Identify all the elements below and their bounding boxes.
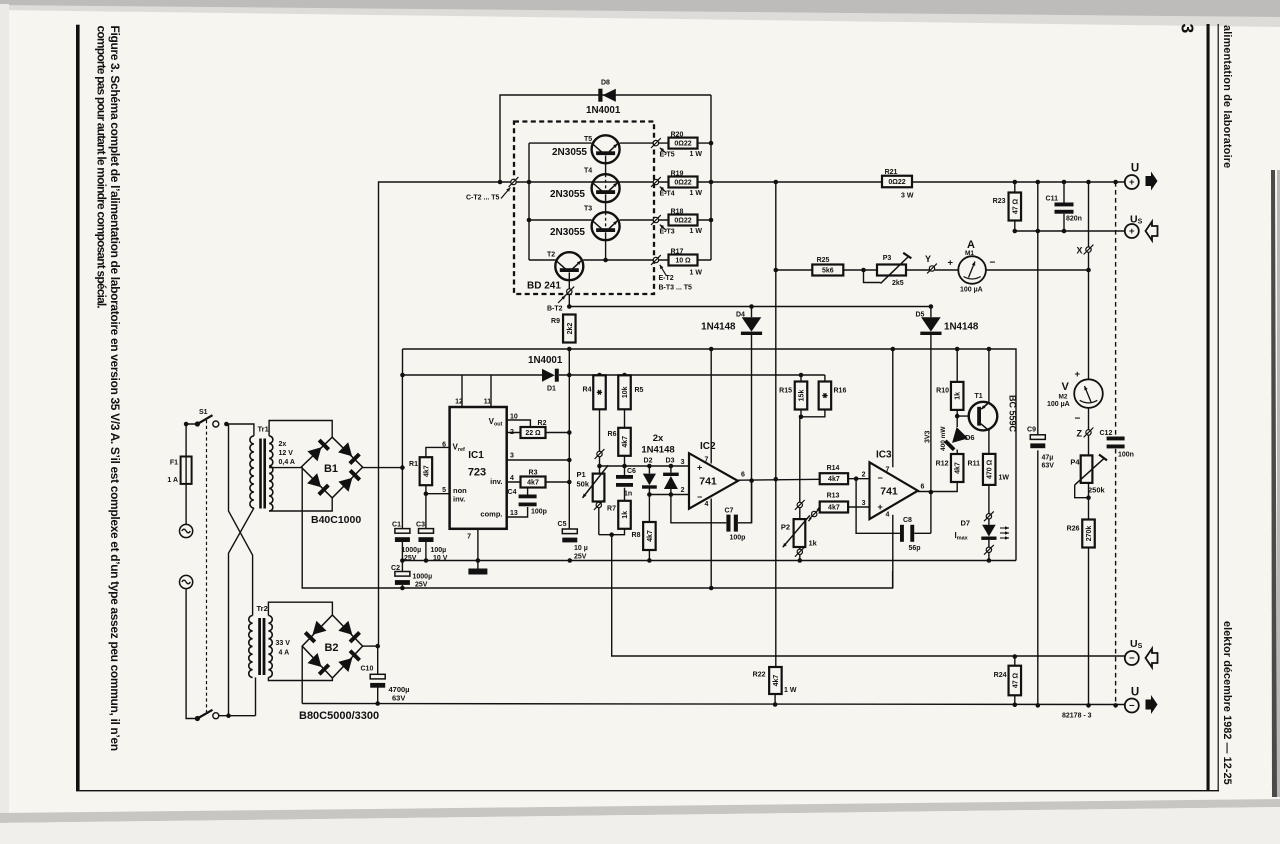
diode D5 xyxy=(921,317,941,331)
cut mark P1 bottom xyxy=(596,502,601,507)
wire C1 column xyxy=(401,375,403,529)
svg-text:X: X xyxy=(1077,246,1083,256)
wire P2 column xyxy=(799,417,801,503)
wire P1 bottom to sense xyxy=(599,502,1125,657)
resistor R24 xyxy=(1009,666,1022,696)
svg-text:63V: 63V xyxy=(392,694,405,703)
cut mark E-T5 xyxy=(653,140,658,145)
svg-text:M1: M1 xyxy=(965,250,974,257)
svg-text:B40C1000: B40C1000 xyxy=(311,514,361,526)
wire IC1 pin4 R3 row xyxy=(507,481,570,483)
svg-text:+: + xyxy=(878,502,883,512)
svg-text:100p: 100p xyxy=(531,509,547,516)
wire meter row 270 xyxy=(776,269,877,271)
svg-text:1k: 1k xyxy=(955,392,962,400)
resistor R14 xyxy=(820,473,848,484)
svg-text:10: 10 xyxy=(510,414,518,421)
resistor R5 xyxy=(618,375,631,409)
wire C9 column xyxy=(1037,182,1039,435)
svg-text:R5: R5 xyxy=(635,387,644,394)
svg-text:S1: S1 xyxy=(199,409,208,416)
svg-text:11: 11 xyxy=(484,399,492,406)
svg-text:comp.: comp. xyxy=(480,510,502,519)
svg-text:4k7: 4k7 xyxy=(622,436,629,448)
wire IC1 pin13 comp xyxy=(507,507,528,517)
svg-text:R9: R9 xyxy=(551,318,560,325)
wire IC2 feedback loop xyxy=(671,481,752,523)
switch S1 pole2 xyxy=(195,716,200,721)
svg-text:3 W: 3 W xyxy=(901,193,914,200)
wire Tr1 bottom to S1 pole2 cross xyxy=(229,508,254,716)
resistor R19 xyxy=(669,177,698,188)
wire R26 to U- rail xyxy=(1088,548,1090,705)
cut mark X xyxy=(1086,247,1091,252)
wire divider row 466 xyxy=(599,465,689,467)
svg-text:R15: R15 xyxy=(779,388,792,395)
svg-text:3: 3 xyxy=(510,453,514,460)
wire sense row 231 xyxy=(1015,230,1125,232)
svg-text:2: 2 xyxy=(862,472,866,479)
svg-text:5k6: 5k6 xyxy=(822,268,834,275)
svg-text:2k2: 2k2 xyxy=(567,323,574,335)
capacitor C7 xyxy=(726,515,730,532)
svg-text:2k5: 2k5 xyxy=(892,280,904,287)
svg-text:V: V xyxy=(1062,381,1070,393)
wire B2 plus to C10 xyxy=(363,645,378,647)
wire R5-R6 link xyxy=(624,410,626,428)
svg-text:R13: R13 xyxy=(827,493,840,500)
svg-text:U: U xyxy=(1131,687,1139,699)
diode D1 xyxy=(542,369,555,382)
svg-text:D3: D3 xyxy=(666,458,675,465)
svg-text:0Ω22: 0Ω22 xyxy=(888,179,905,186)
svg-text:D7: D7 xyxy=(961,519,971,528)
svg-text:723: 723 xyxy=(468,467,486,479)
svg-text:elektor décembre 1982 — 12-25: elektor décembre 1982 — 12-25 xyxy=(1221,621,1233,785)
svg-text:1 W: 1 W xyxy=(690,190,703,197)
capacitor C1 xyxy=(395,529,410,534)
resistor R25 xyxy=(812,265,843,276)
wire IC1 pin6 Vref xyxy=(426,447,507,457)
svg-text:Z: Z xyxy=(1077,429,1083,439)
right margin thin rule xyxy=(1218,24,1219,790)
svg-text:+: + xyxy=(1075,369,1081,380)
svg-text:1n: 1n xyxy=(624,491,632,498)
transformer Tr1 xyxy=(250,436,254,508)
svg-text:0Ω22: 0Ω22 xyxy=(674,218,691,225)
svg-text:C9: C9 xyxy=(1027,427,1036,434)
svg-text:47µ: 47µ xyxy=(1042,455,1054,462)
output Us plus xyxy=(1125,224,1139,238)
cut mark above D7 xyxy=(986,514,991,519)
svg-text:+: + xyxy=(948,258,954,269)
svg-text:100n: 100n xyxy=(1118,452,1134,459)
svg-text:R6: R6 xyxy=(608,431,617,438)
wire D4 column xyxy=(751,307,753,318)
wire D2 stubs xyxy=(648,466,650,474)
wire P4 bottom node xyxy=(1088,483,1090,519)
diode D2 xyxy=(643,474,656,486)
wire Tr2 bottom stub xyxy=(255,677,257,715)
svg-text:D5: D5 xyxy=(916,312,925,319)
resistor R20 xyxy=(669,138,698,149)
cut mark B-T2 xyxy=(567,289,572,294)
output Us minus xyxy=(1125,651,1139,665)
svg-text:2N3055: 2N3055 xyxy=(552,147,587,158)
wire P3 wiper link xyxy=(864,270,881,283)
svg-text:C7: C7 xyxy=(725,508,734,515)
cut mark below D7 xyxy=(986,547,991,552)
cut mark E-T2 xyxy=(653,257,658,262)
wire T5 emitter row xyxy=(529,142,592,144)
svg-text:P1: P1 xyxy=(577,470,586,479)
fuse F1 xyxy=(181,457,192,484)
svg-text:IC1: IC1 xyxy=(468,450,484,461)
svg-text:25V: 25V xyxy=(574,554,587,561)
svg-text:4k7: 4k7 xyxy=(828,505,840,512)
wire D5 column xyxy=(930,307,932,318)
potentiometer P2 xyxy=(794,519,806,547)
wire T2 collector to B-T2 xyxy=(568,272,570,306)
svg-text:R4: R4 xyxy=(583,387,592,394)
transistor T1 BC559C xyxy=(969,402,998,431)
svg-text:250k: 250k xyxy=(1088,486,1106,495)
svg-text:4k7: 4k7 xyxy=(647,530,654,542)
svg-text:E-T4: E-T4 xyxy=(660,191,675,198)
svg-text:T1: T1 xyxy=(975,393,983,400)
wire Tr2 secondary bottom to B2 xyxy=(268,677,332,680)
diode D3 xyxy=(663,473,679,476)
svg-text:12: 12 xyxy=(455,399,463,406)
svg-text:IC2: IC2 xyxy=(700,441,716,452)
svg-text:B1: B1 xyxy=(324,463,338,475)
svg-text:5: 5 xyxy=(442,487,446,494)
svg-text:56p: 56p xyxy=(909,545,921,552)
svg-text:50k: 50k xyxy=(577,480,590,489)
wire left base rail xyxy=(528,182,530,260)
svg-text:470 Ω: 470 Ω xyxy=(987,459,994,479)
wire right rail in power stage xyxy=(710,95,712,260)
mains source 1 xyxy=(180,524,193,537)
wire C6-R7 link xyxy=(624,488,626,501)
svg-text:−: − xyxy=(1075,414,1081,425)
capacitor C3 xyxy=(419,529,434,534)
potentiometer P3 xyxy=(877,265,906,276)
resistor R15 xyxy=(795,382,808,410)
bridge rectifier B1 xyxy=(301,437,362,498)
wire R1 bottom to C3 xyxy=(425,485,427,529)
wire T1 collector to R11 xyxy=(988,430,990,454)
svg-text:R21: R21 xyxy=(885,169,898,176)
svg-text:D1: D1 xyxy=(547,386,556,393)
wire IC3 pin4 down xyxy=(892,515,894,588)
transformer Tr2 xyxy=(249,616,253,678)
resistor R12 xyxy=(951,454,964,482)
wire C4 top stub xyxy=(527,482,529,495)
wire B1 plus to rail xyxy=(363,467,403,469)
wire S1 pole1 to Tr2 cross xyxy=(226,424,252,616)
svg-text:1 W: 1 W xyxy=(784,687,797,694)
svg-text:C12: C12 xyxy=(1100,430,1113,437)
svg-text:7: 7 xyxy=(886,467,890,474)
wire D8 loop top xyxy=(500,95,711,182)
svg-text:400 mW: 400 mW xyxy=(940,426,947,451)
wire X to voltmeter xyxy=(1088,270,1090,379)
svg-text:4: 4 xyxy=(510,475,514,482)
voltmeter M2 xyxy=(1074,379,1103,408)
svg-text:4k7: 4k7 xyxy=(423,465,430,477)
svg-text:741: 741 xyxy=(880,486,898,498)
svg-text:C5: C5 xyxy=(558,521,567,528)
svg-text:10 µ: 10 µ xyxy=(574,545,588,552)
cut mark C-T2 xyxy=(511,179,516,184)
capacitor C12 xyxy=(1107,437,1125,441)
wire R8 branch xyxy=(648,495,650,522)
svg-text:R19: R19 xyxy=(671,170,684,177)
svg-text:Tr2: Tr2 xyxy=(257,604,268,613)
svg-text:2N3055: 2N3055 xyxy=(550,227,585,238)
wire D3 stubs xyxy=(670,466,672,473)
wire R6-C6 link xyxy=(624,456,626,475)
switch link dashed xyxy=(206,420,208,712)
capacitor C11 xyxy=(1055,203,1074,207)
svg-text:3: 3 xyxy=(1178,24,1198,34)
wire Tr1 secondary bottom to B1 xyxy=(269,498,332,511)
svg-text:BD 241: BD 241 xyxy=(527,281,561,292)
svg-text:12 V: 12 V xyxy=(279,450,294,457)
svg-text:R8: R8 xyxy=(632,532,641,539)
wire T1 emitter up xyxy=(988,349,990,403)
cut mark E-T3 xyxy=(653,217,658,222)
svg-text:1N4148: 1N4148 xyxy=(701,322,736,333)
svg-text:10 Ω: 10 Ω xyxy=(675,258,691,265)
wire T2 row xyxy=(529,259,556,261)
resistor R10 xyxy=(951,382,964,410)
cut mark Z xyxy=(1086,430,1091,435)
svg-text:E-T3: E-T3 xyxy=(660,229,675,236)
svg-text:25V: 25V xyxy=(404,555,417,562)
svg-text:1k: 1k xyxy=(622,511,629,519)
transistor T5 xyxy=(592,135,620,163)
resistor R4 xyxy=(593,375,606,409)
capacitor C4 xyxy=(519,495,537,499)
svg-text:T3: T3 xyxy=(584,206,592,213)
svg-text:47 Ω: 47 Ω xyxy=(1012,672,1019,688)
svg-text:100 µA: 100 µA xyxy=(960,287,983,294)
svg-text:R25: R25 xyxy=(817,257,830,264)
wire top rail U+ xyxy=(514,181,1125,183)
svg-text:1k: 1k xyxy=(809,539,818,548)
svg-text:R23: R23 xyxy=(993,198,1006,205)
wire T3 collector to T2 row xyxy=(605,232,607,260)
wire R4 to P1 xyxy=(599,410,601,474)
svg-text:4: 4 xyxy=(886,512,890,519)
wire Tr2 secondary top to B2 xyxy=(268,602,332,615)
svg-text:4k7: 4k7 xyxy=(773,675,780,687)
bottom thin rule xyxy=(76,790,1219,791)
svg-text:comporte pas pour autant le mo: comporte pas pour autant le moindre comp… xyxy=(95,26,109,309)
wire C10 stubs xyxy=(377,646,379,674)
wire T5-T4 collector link xyxy=(605,156,607,175)
svg-text:B-T3 ... T5: B-T3 ... T5 xyxy=(659,285,693,292)
svg-text:−: − xyxy=(878,473,883,483)
wire op-amp supply rail 349 xyxy=(403,349,1017,561)
diode D8 xyxy=(598,89,602,102)
svg-text:−: − xyxy=(697,492,702,502)
svg-text:R10: R10 xyxy=(936,388,949,395)
wire R9 column xyxy=(568,349,570,529)
svg-text:C-T2 ... T5: C-T2 ... T5 xyxy=(466,195,500,202)
wire C2 stubs xyxy=(401,561,403,572)
resistor R13 xyxy=(820,502,848,513)
svg-text:82178 - 3: 82178 - 3 xyxy=(1062,713,1092,720)
svg-text:P2: P2 xyxy=(781,523,790,532)
wire R24 stubs xyxy=(1014,657,1016,666)
transistor T4 xyxy=(592,174,620,202)
svg-text:2x: 2x xyxy=(653,433,664,444)
ground symbol xyxy=(468,569,487,575)
svg-text:C8: C8 xyxy=(903,517,912,524)
svg-text:T2: T2 xyxy=(547,252,555,259)
svg-text:T5: T5 xyxy=(584,136,592,143)
resistor R11 xyxy=(983,454,996,485)
wire R15 stubs xyxy=(800,375,802,381)
svg-text:Y: Y xyxy=(925,254,931,264)
svg-text:✱: ✱ xyxy=(821,392,829,398)
svg-text:1 W: 1 W xyxy=(690,270,703,277)
svg-text:C10: C10 xyxy=(361,666,374,673)
wire collector rail from B2 to dashed box xyxy=(379,182,514,646)
svg-text:820n: 820n xyxy=(1066,216,1082,223)
wire S1 pole1 to Tr1 xyxy=(226,424,254,436)
svg-text:C1: C1 xyxy=(392,522,401,529)
svg-text:7: 7 xyxy=(467,534,471,541)
wire M2 to Z to P4 xyxy=(1088,408,1090,430)
resistor R6 xyxy=(618,428,631,456)
svg-text:4k7: 4k7 xyxy=(527,480,539,487)
svg-text:B80C5000/3300: B80C5000/3300 xyxy=(299,710,379,722)
wire IC1 pin10 pin2 xyxy=(507,420,570,433)
svg-text:1N4148: 1N4148 xyxy=(641,445,674,456)
svg-text:−: − xyxy=(990,258,996,269)
svg-text:P4: P4 xyxy=(1070,458,1080,467)
svg-text:R22: R22 xyxy=(753,672,766,679)
svg-text:P3: P3 xyxy=(883,255,892,262)
wire R22 stubs xyxy=(774,695,776,705)
svg-text:M2: M2 xyxy=(1059,394,1068,401)
svg-text:6: 6 xyxy=(442,442,446,449)
wire zero volt rail xyxy=(402,560,1016,562)
cut mark E-T4 xyxy=(653,179,658,184)
svg-text:4k7: 4k7 xyxy=(955,462,962,474)
wire R14 to IC3 xyxy=(848,478,869,480)
left margin thick rule xyxy=(76,25,80,791)
svg-text:22 Ω: 22 Ω xyxy=(525,430,541,437)
svg-text:D2: D2 xyxy=(644,458,653,465)
resistor R1 xyxy=(420,457,433,485)
svg-text:IC3: IC3 xyxy=(876,450,892,461)
svg-text:1000µ: 1000µ xyxy=(402,547,422,554)
cut mark Y xyxy=(929,266,934,271)
wire T4-T3 collector link xyxy=(605,194,607,212)
wire U- rail xyxy=(302,704,1124,705)
svg-text:6: 6 xyxy=(921,484,925,491)
svg-text:741: 741 xyxy=(699,476,717,488)
cut mark P2 top xyxy=(797,502,802,507)
svg-text:4k7: 4k7 xyxy=(828,476,840,483)
wire S1 pole2 row xyxy=(215,715,255,717)
wire IC3 pin7 supply xyxy=(892,349,894,467)
wire R13 zigzag to P2 wiper xyxy=(808,507,819,521)
cut mark P1 top xyxy=(597,451,602,456)
wire B1 plus rail 375 xyxy=(402,349,404,375)
resistor R21 xyxy=(882,176,912,188)
svg-text:+: + xyxy=(1129,177,1135,188)
svg-text:2: 2 xyxy=(681,487,685,494)
resistor R23 xyxy=(1009,193,1022,221)
op-amp IC3 xyxy=(870,462,918,519)
svg-text:Figure 3. Schéma complet de l’: Figure 3. Schéma complet de l’alimentati… xyxy=(108,26,122,751)
svg-text:1 A: 1 A xyxy=(167,477,178,484)
svg-text:0,4 A: 0,4 A xyxy=(279,459,295,466)
svg-text:−: − xyxy=(1129,653,1135,664)
switch S1 pole1 xyxy=(195,421,200,426)
svg-text:✱: ✱ xyxy=(596,389,604,395)
svg-text:2: 2 xyxy=(510,429,514,436)
svg-text:1N4148: 1N4148 xyxy=(944,322,979,333)
wire T3 row xyxy=(529,219,592,221)
svg-text:2x: 2x xyxy=(279,441,287,448)
capacitor C5 xyxy=(569,528,571,530)
right margin thick rule xyxy=(1207,24,1210,790)
svg-text:+: + xyxy=(1129,226,1135,237)
svg-text:C4: C4 xyxy=(508,489,517,496)
page right edge shadow xyxy=(1271,170,1277,797)
svg-text:C11: C11 xyxy=(1046,196,1059,203)
svg-text:F1: F1 xyxy=(170,460,178,467)
IC1 regulator 723 xyxy=(450,407,507,529)
mains source 2 xyxy=(180,575,193,588)
dashed enclosure power transistors xyxy=(514,122,654,295)
transistor T3 xyxy=(592,212,620,240)
svg-text:R1: R1 xyxy=(409,461,418,468)
wire R16 stubs xyxy=(801,375,825,417)
resistor R8 xyxy=(643,522,656,550)
wire Tr1 center tap to B1 left xyxy=(269,467,301,469)
wire minus rail 588 xyxy=(302,467,892,588)
zener D6 xyxy=(952,427,968,443)
svg-text:R14: R14 xyxy=(827,465,840,472)
wire R13 to IC3 xyxy=(848,506,869,508)
svg-text:1N4001: 1N4001 xyxy=(586,105,621,116)
wire mains lower column xyxy=(186,589,197,719)
svg-text:7: 7 xyxy=(705,457,709,464)
svg-text:inv.: inv. xyxy=(453,495,465,504)
capacitor C8 xyxy=(900,525,904,542)
wire P2 bottom xyxy=(799,548,801,550)
svg-text:C2: C2 xyxy=(391,565,400,572)
svg-text:R2: R2 xyxy=(538,420,547,427)
resistor R3 xyxy=(521,477,546,488)
wire T5 base stub xyxy=(528,143,530,182)
svg-text:R3: R3 xyxy=(529,470,538,477)
wire mains feed F1 column xyxy=(186,424,197,525)
wire IC2 output row xyxy=(738,478,820,481)
wire C11 column xyxy=(1063,182,1065,203)
svg-text:R11: R11 xyxy=(968,461,981,468)
svg-text:0Ω22: 0Ω22 xyxy=(674,180,691,187)
wire IC2 pin7 supply xyxy=(710,349,712,464)
